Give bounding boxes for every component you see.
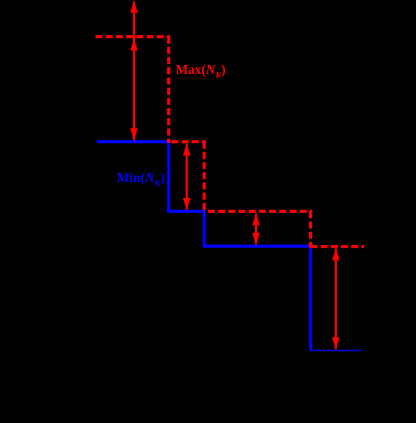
arrow A3 up-head (252, 213, 260, 225)
blue solid staircase (lower envelope) (97, 142, 311, 350)
arrow A1 mid up-head (below level-1 dashed line) (130, 39, 138, 51)
red dashed staircase: level-3 horizontal (204, 210, 312, 213)
arrow A4 shaft (335, 248, 337, 349)
blue thin final step (310, 350, 361, 352)
red dashed staircase: level-1 horizontal (96, 35, 171, 38)
arrow A2 up-head (183, 144, 191, 156)
arrow A2 down-head (183, 198, 191, 210)
arrow A3 shaft (255, 213, 257, 244)
arrow A4 down-head (332, 337, 340, 349)
arrow A1 bottom down-head (at blue level-2 line) (130, 128, 138, 140)
red dashed staircase: drop at break 2 (203, 142, 206, 213)
red dashed staircase: drop at break 3 (309, 211, 312, 247)
red dashed staircase: level-4 horizontal (311, 245, 365, 248)
arrow A3 down-head (252, 233, 260, 245)
arrow A2 shaft (186, 144, 188, 210)
arrow A1 shaft (x=134, from top to level-2 line) (133, 1, 135, 140)
red dashed staircase: drop at break 1 (167, 37, 170, 143)
arrow A4 up-head (332, 248, 340, 260)
arrow A1 top up-head (130, 1, 138, 13)
red dashed staircase: level-2 horizontal (169, 140, 206, 143)
